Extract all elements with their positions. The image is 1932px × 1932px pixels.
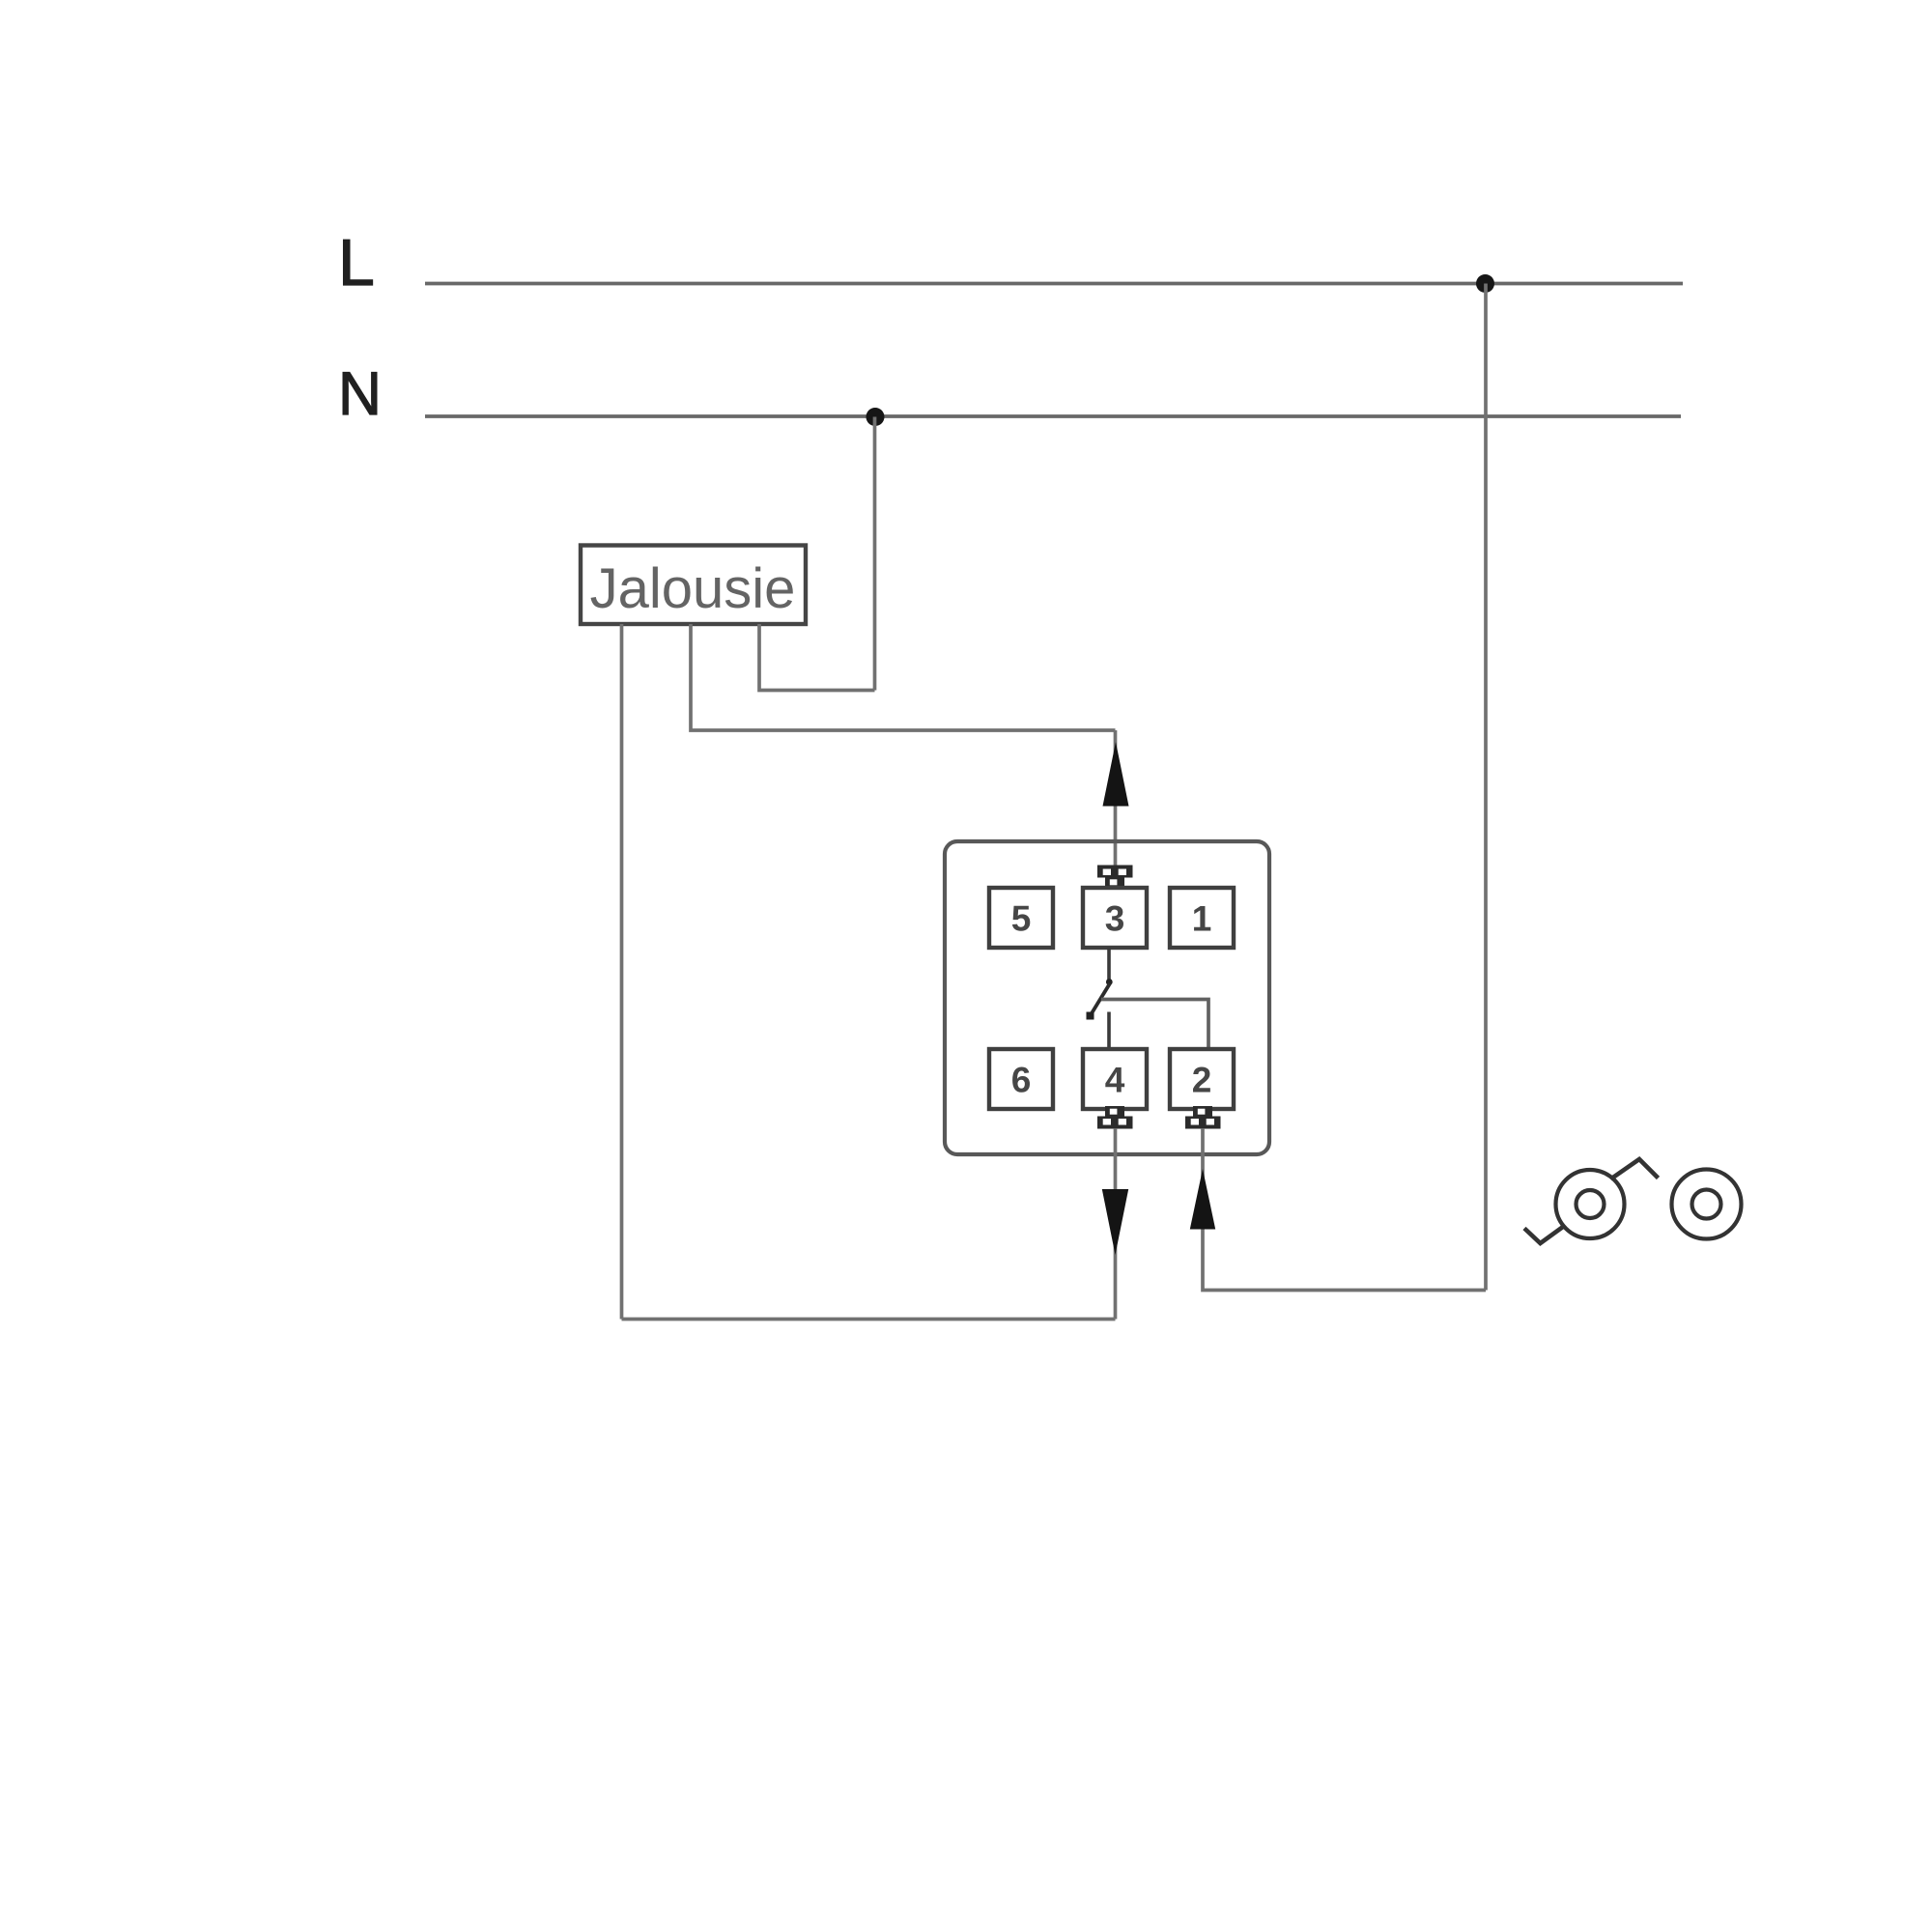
switch upper contact dot (1106, 979, 1113, 985)
svg-text:L: L (338, 226, 375, 299)
wire bottom horizontal to terminal 4 line (622, 1318, 1116, 1321)
rocker switch symbol: right inner circle (1692, 1190, 1721, 1219)
rocker switch symbol: caret lever (1611, 1159, 1659, 1179)
terminal clamp below terminal 2 (1185, 1106, 1221, 1129)
wire L line (425, 282, 1683, 286)
terminal 5 (989, 888, 1053, 948)
wire Jalousie left stub down (620, 624, 624, 1320)
junction dot on L (1476, 274, 1494, 293)
wire terminal 4 down to bottom rail (1114, 1128, 1118, 1320)
wire switch node to terminal 2 (1101, 1000, 1208, 1050)
wire Jalousie middle stub (691, 624, 1116, 730)
wire down from corner to terminal 3 clamp (1114, 730, 1118, 867)
arrow up below switch box on terminal 2 wire (1190, 1169, 1215, 1230)
svg-text:6: 6 (1011, 1061, 1032, 1100)
terminal 1 (1170, 888, 1234, 948)
rocker switch symbol: right circle (1672, 1170, 1742, 1239)
terminal 3 (1083, 888, 1147, 948)
Jalousie box (581, 546, 806, 625)
switch unit box (945, 841, 1269, 1154)
svg-text:2: 2 (1192, 1061, 1212, 1100)
wire N line (425, 414, 1681, 418)
wire terminal 3 to switch contact (1107, 948, 1111, 983)
switch lever (open) (1091, 983, 1111, 1016)
terminal 4 (1083, 1049, 1147, 1109)
svg-text:Jalousie: Jalousie (590, 557, 796, 620)
rocker switch symbol: lower-left tail (1524, 1226, 1565, 1244)
wire Jalousie right stub (759, 624, 875, 691)
svg-text:1: 1 (1192, 899, 1212, 939)
arrow up (blinds up) above switch box (1103, 742, 1129, 807)
svg-text:4: 4 (1105, 1061, 1125, 1100)
wire from L junction down right side (1484, 284, 1488, 1291)
rocker switch symbol: left circle (1556, 1170, 1625, 1238)
terminal 2 (1170, 1049, 1234, 1109)
wire switch to terminal 4 (1107, 1012, 1111, 1050)
wire terminal 2 down and right to L drop (1203, 1128, 1486, 1291)
rocker switch symbol: left inner circle (1577, 1190, 1605, 1218)
switch lever end blob (1087, 1012, 1094, 1020)
svg-text:3: 3 (1105, 899, 1125, 939)
terminal 6 (989, 1049, 1053, 1109)
junction dot on N (867, 408, 885, 426)
arrow down (blinds down) below switch box (1102, 1189, 1128, 1255)
svg-text:5: 5 (1011, 899, 1032, 939)
wire from N junction down (873, 417, 877, 691)
terminal clamp above terminal 3 (1097, 866, 1133, 889)
terminal clamp below terminal 4 (1097, 1106, 1133, 1129)
svg-text:N: N (338, 360, 382, 428)
